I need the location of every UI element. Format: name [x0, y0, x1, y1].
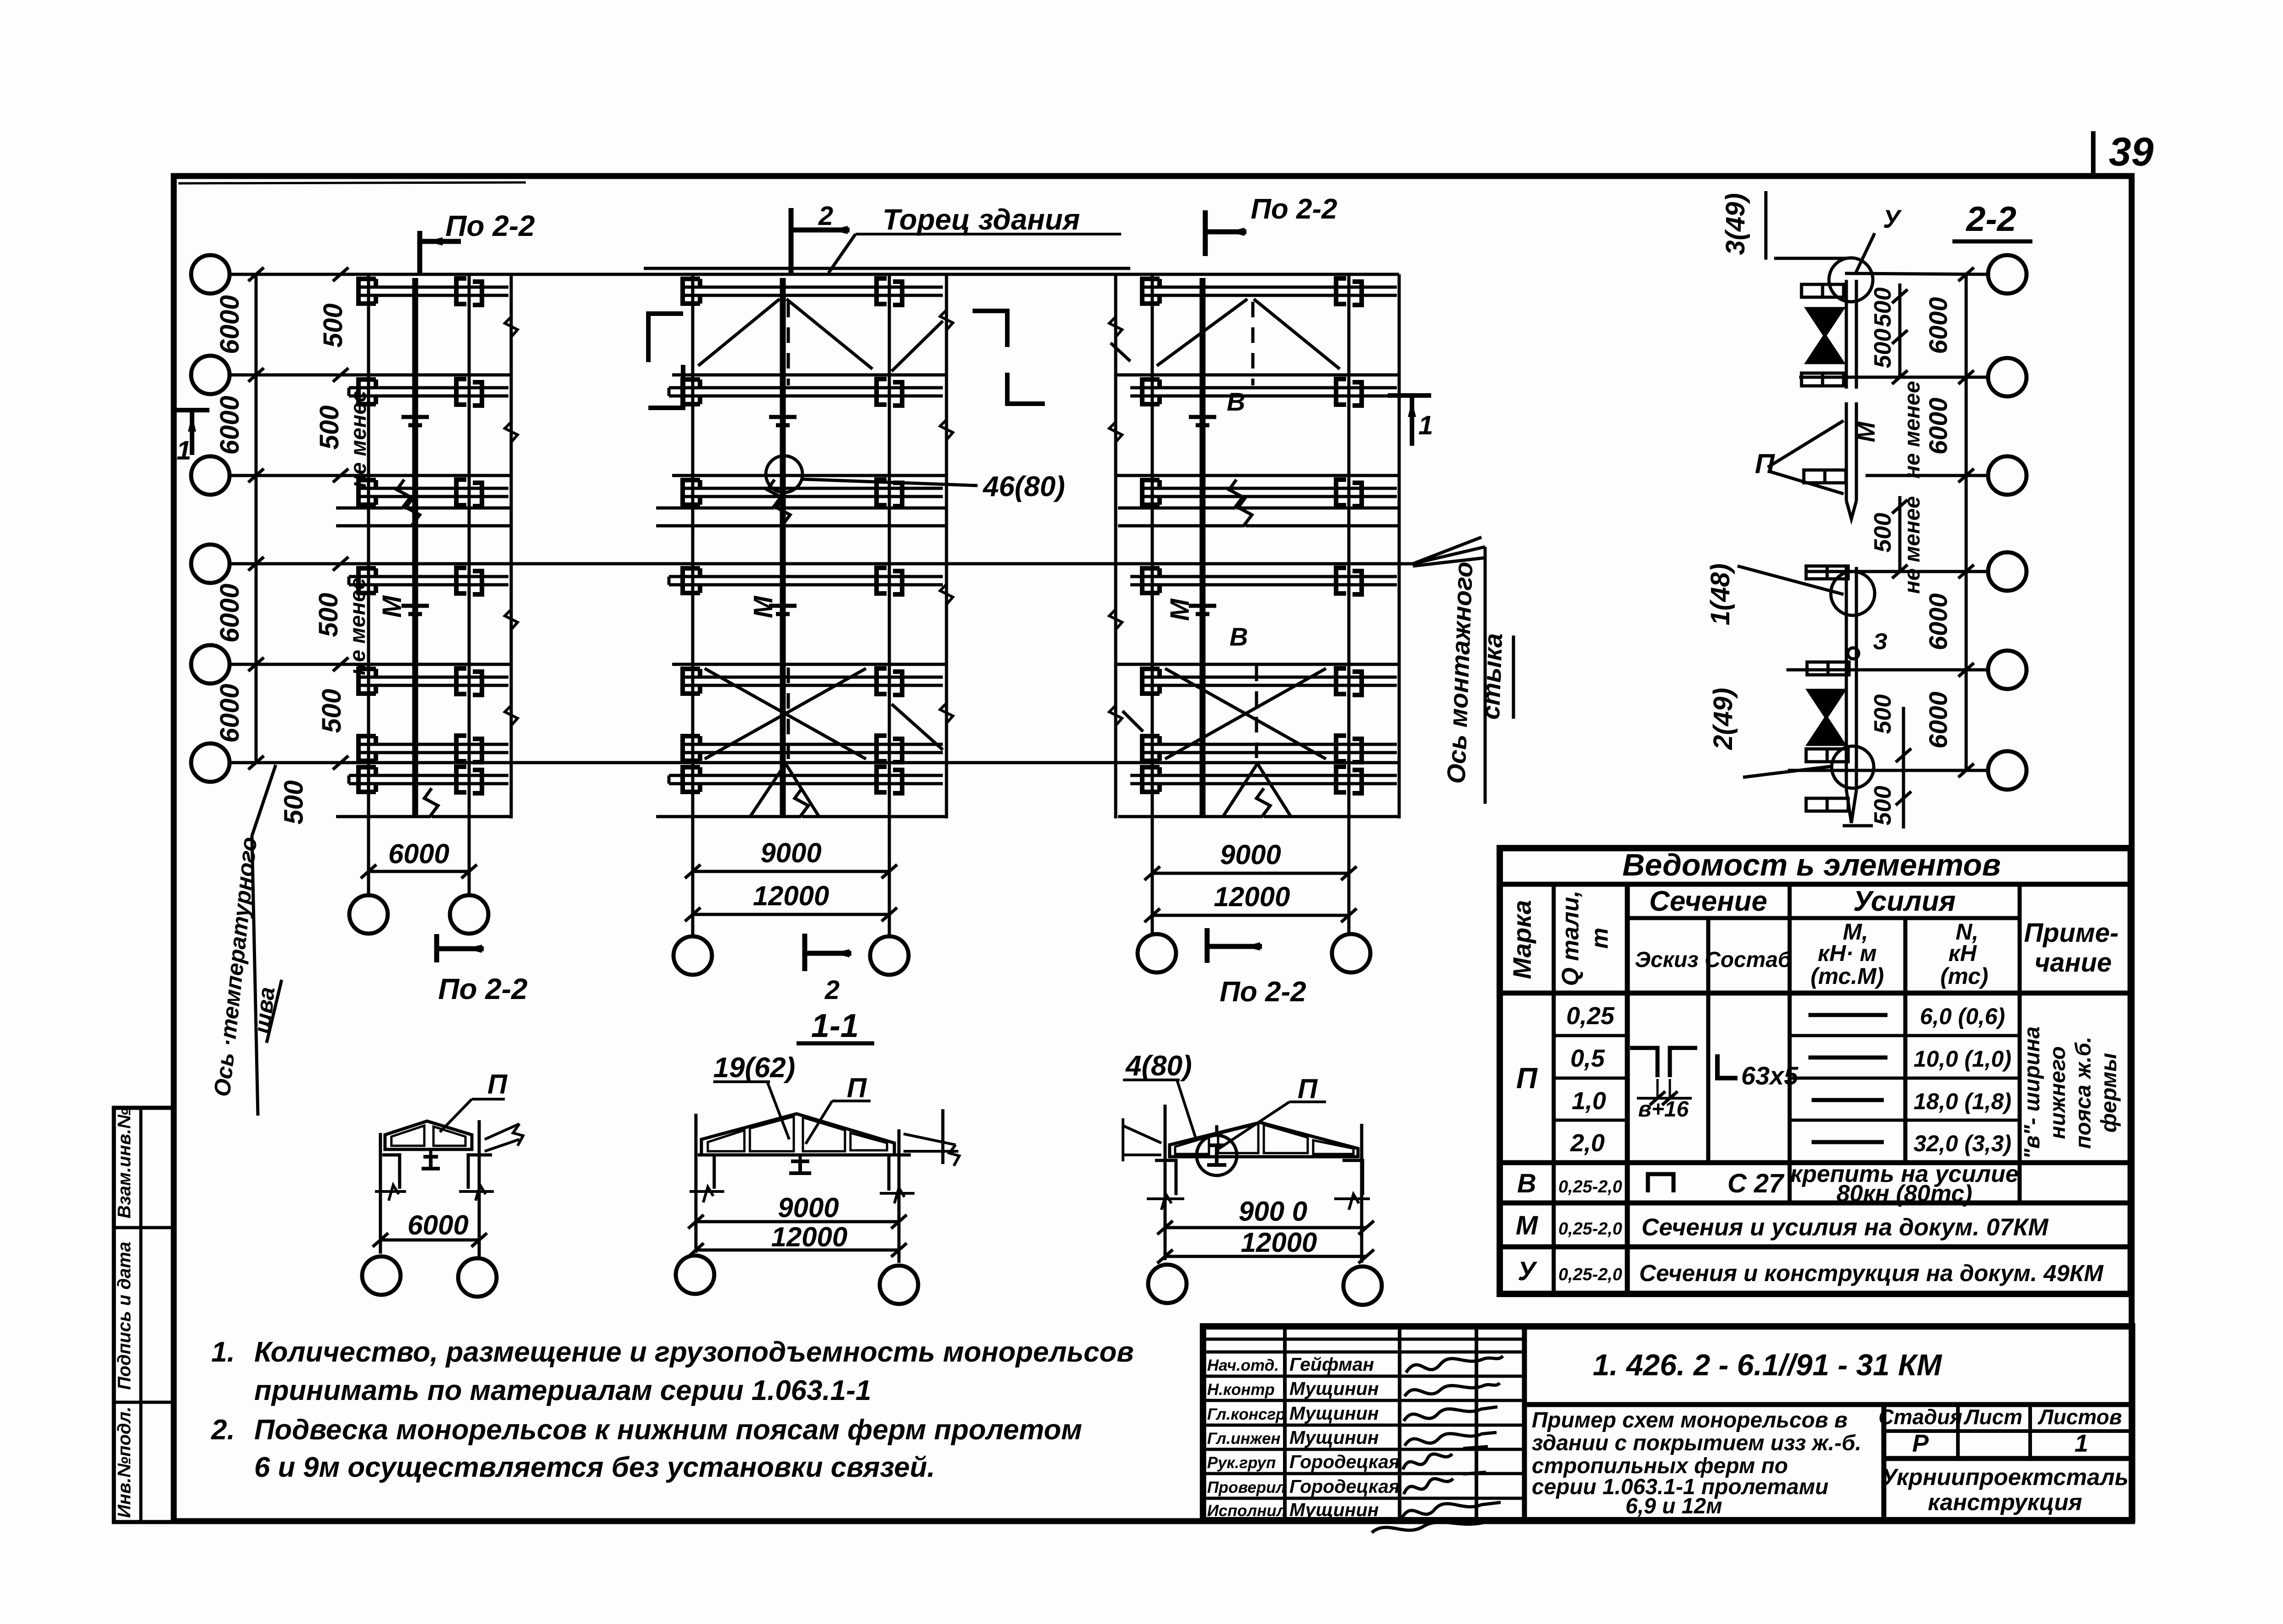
svg-text:Ось монтажного: Ось монтажного — [1442, 561, 1478, 784]
svg-text:Р: Р — [1912, 1430, 1929, 1457]
svg-text:шва: шва — [249, 986, 279, 1035]
svg-text:По 2-2: По 2-2 — [1251, 193, 1337, 225]
svg-text:Н.контр: Н.контр — [1207, 1381, 1275, 1399]
svg-text:В: В — [1230, 622, 1248, 651]
svg-text:6000: 6000 — [215, 395, 245, 454]
svg-text:нижнего: нижнего — [2046, 1046, 2070, 1139]
svg-text:0,25: 0,25 — [1566, 1002, 1615, 1030]
svg-text:Городецкая: Городецкая — [1289, 1476, 1400, 1497]
svg-text:в+16: в+16 — [1638, 1097, 1689, 1122]
svg-text:500: 500 — [279, 780, 309, 825]
svg-text:В: В — [1517, 1169, 1536, 1198]
svg-text:У: У — [1883, 204, 1902, 233]
svg-text:принимать по материалам серии: принимать по материалам серии 1.063.1-1 — [254, 1375, 871, 1406]
svg-text:12000: 12000 — [771, 1222, 848, 1252]
svg-text:кН· м: кН· м — [1818, 940, 1877, 966]
svg-text:В: В — [1227, 387, 1245, 416]
svg-text:Гейфман: Гейфман — [1289, 1354, 1374, 1375]
svg-text:Мущинин: Мущинин — [1289, 1427, 1379, 1448]
svg-text:Состаб: Состаб — [1705, 948, 1792, 972]
svg-text:Мущинин: Мущинин — [1289, 1403, 1379, 1424]
svg-text:2-2: 2-2 — [1965, 200, 2016, 239]
svg-text:М: М — [377, 595, 407, 618]
svg-text:12000: 12000 — [1241, 1227, 1317, 1258]
svg-text:Инв.№подл.: Инв.№подл. — [114, 1406, 134, 1518]
svg-text:1: 1 — [176, 436, 191, 465]
svg-text:канструкция: канструкция — [1928, 1489, 2082, 1515]
svg-text:Гл.консгр: Гл.консгр — [1207, 1405, 1285, 1423]
svg-text:П: П — [847, 1073, 867, 1103]
svg-text:46(80): 46(80) — [982, 471, 1065, 502]
svg-text:Исполнил: Исполнил — [1207, 1502, 1287, 1520]
svg-text:1,0: 1,0 — [1572, 1087, 1606, 1115]
svg-text:6 и 9м осуществляется без уста: 6 и 9м осуществляется без установки связ… — [254, 1452, 935, 1483]
svg-text:З: З — [1873, 629, 1887, 654]
svg-text:1(48): 1(48) — [1706, 563, 1735, 625]
svg-text:Взам.инв.№: Взам.инв.№ — [114, 1108, 134, 1218]
svg-text:здании с покрытием изз ж.-б.: здании с покрытием изз ж.-б. — [1532, 1431, 1861, 1455]
svg-text:Марка: Марка — [1508, 900, 1536, 979]
svg-text:1: 1 — [2074, 1430, 2088, 1457]
svg-text:6000: 6000 — [1924, 398, 1952, 455]
svg-text:П: П — [1298, 1074, 1318, 1104]
svg-text:Приме-: Приме- — [2024, 918, 2118, 948]
svg-text:3(49): 3(49) — [1721, 193, 1750, 255]
svg-text:Подпись и дата: Подпись и дата — [114, 1242, 134, 1390]
svg-text:2: 2 — [818, 201, 833, 231]
svg-text:Нач.отд.: Нач.отд. — [1207, 1357, 1279, 1374]
svg-text:Ведомост ь элементов: Ведомост ь элементов — [1622, 848, 2001, 882]
svg-text:6000: 6000 — [407, 1210, 468, 1240]
svg-text:Стадия: Стадия — [1878, 1405, 1962, 1429]
svg-text:32,0 (3,3): 32,0 (3,3) — [1914, 1131, 2011, 1156]
svg-text:0,25-2,0: 0,25-2,0 — [1558, 1177, 1622, 1197]
svg-text:П: П — [1516, 1062, 1538, 1095]
svg-text:По 2-2: По 2-2 — [1219, 976, 1306, 1008]
svg-text:12000: 12000 — [753, 881, 829, 911]
svg-text:чание: чание — [2035, 948, 2112, 978]
svg-text:1: 1 — [1418, 411, 1433, 440]
svg-text:2.: 2. — [211, 1414, 235, 1446]
svg-text:Торец здания: Торец здания — [882, 203, 1080, 236]
svg-text:У: У — [1518, 1256, 1537, 1286]
svg-text:500: 500 — [1870, 513, 1896, 553]
svg-text:(тс): (тс) — [1941, 963, 1989, 989]
svg-text:9000: 9000 — [1220, 839, 1281, 870]
svg-text:4(80): 4(80) — [1125, 1050, 1192, 1082]
svg-text:500: 500 — [1870, 786, 1896, 826]
svg-text:12000: 12000 — [1214, 881, 1290, 912]
svg-text:80кн (80тс): 80кн (80тс) — [1837, 1181, 1973, 1207]
svg-text:По 2-2: По 2-2 — [445, 209, 535, 242]
svg-text:Мущинин: Мущинин — [1289, 1378, 1379, 1399]
svg-text:Мущинин: Мущинин — [1289, 1499, 1379, 1520]
svg-text:63х5: 63х5 — [1741, 1061, 1798, 1090]
svg-text:500: 500 — [315, 406, 344, 450]
svg-text:9000: 9000 — [760, 838, 821, 868]
svg-text:900 0: 900 0 — [1239, 1196, 1307, 1227]
svg-text:(тс.М): (тс.М) — [1811, 963, 1884, 989]
svg-text:Рук.груп: Рук.груп — [1207, 1454, 1276, 1472]
svg-text:Количество, размещение и грузо: Количество, размещение и грузоподъемност… — [254, 1336, 1134, 1368]
svg-text:Подвеска монорельсов к нижним: Подвеска монорельсов к нижним поясам фер… — [254, 1414, 1082, 1446]
svg-text:2,0: 2,0 — [1570, 1129, 1604, 1157]
svg-text:стыка: стыка — [1476, 633, 1508, 720]
svg-text:19(62): 19(62) — [713, 1052, 795, 1084]
svg-text:10,0 (1,0): 10,0 (1,0) — [1914, 1046, 2011, 1072]
svg-text:1. 426. 2 - 6.1//91 - 31 КМ: 1. 426. 2 - 6.1//91 - 31 КМ — [1593, 1348, 1942, 1382]
svg-text:6000: 6000 — [215, 583, 245, 642]
svg-text:6000: 6000 — [215, 295, 245, 354]
svg-text:М: М — [749, 595, 778, 618]
svg-text:0,25-2,0: 0,25-2,0 — [1558, 1219, 1622, 1239]
svg-text:500: 500 — [318, 304, 348, 348]
svg-text:500: 500 — [1870, 288, 1896, 327]
svg-text:не менее: не менее — [1900, 381, 1925, 479]
svg-text:1.: 1. — [211, 1336, 235, 1368]
svg-text:6,9 и 12м: 6,9 и 12м — [1625, 1494, 1722, 1518]
svg-text:6000: 6000 — [388, 839, 449, 869]
svg-text:500: 500 — [1870, 694, 1896, 734]
svg-text:т: т — [1587, 928, 1613, 949]
svg-text:П: П — [1755, 449, 1775, 479]
svg-text:Лист: Лист — [1963, 1405, 2022, 1429]
svg-text:"в"- ширина: "в"- ширина — [2020, 1026, 2044, 1159]
svg-text:39: 39 — [2109, 129, 2154, 174]
svg-text:500: 500 — [1870, 329, 1896, 369]
svg-text:Листов: Листов — [2037, 1405, 2122, 1429]
svg-text:Усилия: Усилия — [1853, 886, 1956, 917]
svg-text:Сечение: Сечение — [1649, 886, 1767, 917]
svg-text:0,25-2,0: 0,25-2,0 — [1558, 1265, 1622, 1284]
svg-text:С 27: С 27 — [1727, 1169, 1785, 1198]
svg-text:9000: 9000 — [778, 1192, 839, 1223]
svg-text:6,0 (0,6): 6,0 (0,6) — [1920, 1004, 2005, 1029]
svg-text:П: П — [487, 1069, 508, 1100]
svg-text:6000: 6000 — [1924, 593, 1952, 651]
svg-text:Эскиз: Эскиз — [1635, 948, 1698, 972]
svg-text:Сечения и конструкция на докум: Сечения и конструкция на докум. 49КМ — [1639, 1260, 2104, 1286]
svg-text:0,5: 0,5 — [1570, 1045, 1605, 1072]
svg-text:6000: 6000 — [1924, 692, 1952, 749]
svg-text:18,0 (1,8): 18,0 (1,8) — [1914, 1089, 2011, 1114]
svg-text:500: 500 — [317, 689, 347, 733]
svg-text:2(49): 2(49) — [1708, 688, 1738, 750]
svg-text:1-1: 1-1 — [811, 1008, 859, 1044]
svg-text:Сечения и усилия на докум. 07: Сечения и усилия на докум. 07КМ — [1641, 1214, 2049, 1241]
svg-text:6000: 6000 — [1924, 297, 1952, 354]
svg-text:2: 2 — [824, 975, 839, 1005]
svg-text:М: М — [1853, 421, 1880, 442]
svg-text:500: 500 — [314, 593, 343, 637]
svg-text:По 2-2: По 2-2 — [438, 972, 527, 1005]
svg-text:Q тали,: Q тали, — [1557, 890, 1584, 986]
svg-text:Укрниипроектсталь: Укрниипроектсталь — [1882, 1464, 2128, 1490]
svg-text:Проверил: Проверил — [1207, 1479, 1286, 1496]
svg-text:не менее: не менее — [1900, 496, 1925, 594]
svg-text:пояса ж.б.: пояса ж.б. — [2071, 1036, 2096, 1149]
svg-text:Пример схем монорельсов в: Пример схем монорельсов в — [1532, 1408, 1848, 1432]
svg-text:6000: 6000 — [215, 684, 245, 743]
svg-text:М: М — [1165, 598, 1195, 621]
svg-text:Гл.инжен: Гл.инжен — [1207, 1430, 1281, 1448]
svg-text:М: М — [1516, 1211, 1539, 1240]
svg-text:кН: кН — [1948, 940, 1977, 966]
svg-text:фермы: фермы — [2097, 1053, 2121, 1133]
svg-text:Городецкая: Городецкая — [1289, 1451, 1400, 1472]
